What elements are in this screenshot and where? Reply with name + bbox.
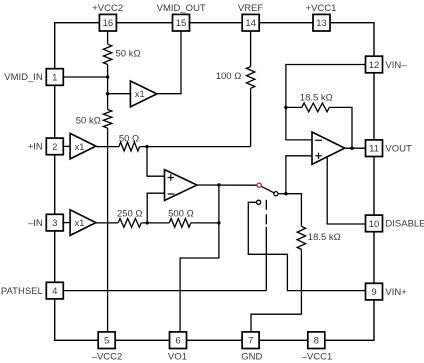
svg-text:VMID_IN: VMID_IN xyxy=(4,72,43,83)
svg-text:18.5 kΩ: 18.5 kΩ xyxy=(308,232,341,243)
svg-text:4: 4 xyxy=(52,286,57,297)
svg-text:+IN: +IN xyxy=(28,142,43,153)
svg-text:50 kΩ: 50 kΩ xyxy=(116,48,141,59)
svg-text:1: 1 xyxy=(52,72,57,83)
svg-text:VOUT: VOUT xyxy=(385,144,412,155)
svg-text:13: 13 xyxy=(316,18,327,29)
svg-text:PATHSEL: PATHSEL xyxy=(1,286,43,297)
svg-text:VREF: VREF xyxy=(238,3,264,14)
svg-text:100 Ω: 100 Ω xyxy=(216,71,242,82)
svg-text:7: 7 xyxy=(248,336,253,347)
svg-text:GND: GND xyxy=(241,352,262,363)
svg-text:VMID_OUT: VMID_OUT xyxy=(157,3,206,14)
svg-text:VIN–: VIN– xyxy=(385,60,407,71)
svg-text:50 kΩ: 50 kΩ xyxy=(76,115,101,126)
svg-text:x1: x1 xyxy=(135,89,145,99)
svg-text:10: 10 xyxy=(369,219,380,230)
svg-text:250 Ω: 250 Ω xyxy=(117,209,143,220)
svg-text:–VCC2: –VCC2 xyxy=(92,352,123,363)
svg-text:50 Ω: 50 Ω xyxy=(119,134,139,145)
svg-text:12: 12 xyxy=(369,60,380,71)
svg-text:+VCC2: +VCC2 xyxy=(92,3,123,14)
svg-text:15: 15 xyxy=(176,18,187,29)
svg-text:–IN: –IN xyxy=(28,218,43,229)
svg-text:+VCC1: +VCC1 xyxy=(306,3,337,14)
svg-text:5: 5 xyxy=(104,336,109,347)
svg-text:3: 3 xyxy=(52,218,57,229)
svg-text:8: 8 xyxy=(314,336,319,347)
svg-text:x1: x1 xyxy=(75,142,85,152)
svg-text:VO1: VO1 xyxy=(168,352,187,363)
svg-text:DISABLE: DISABLE xyxy=(385,218,424,229)
svg-text:14: 14 xyxy=(245,18,256,29)
svg-text:6: 6 xyxy=(175,336,180,347)
svg-text:VIN+: VIN+ xyxy=(385,287,407,298)
svg-text:–VCC1: –VCC1 xyxy=(302,352,333,363)
svg-text:x1: x1 xyxy=(75,218,85,228)
svg-text:16: 16 xyxy=(103,18,114,29)
svg-text:500 Ω: 500 Ω xyxy=(168,209,194,220)
svg-text:9: 9 xyxy=(371,287,376,298)
svg-text:11: 11 xyxy=(369,144,379,155)
svg-text:18.5 kΩ: 18.5 kΩ xyxy=(300,93,333,104)
svg-text:2: 2 xyxy=(52,142,57,153)
